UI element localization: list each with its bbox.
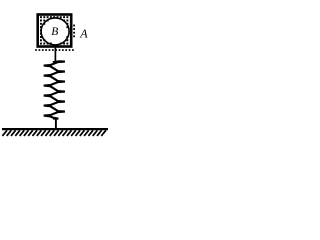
shadow dots right of block (73, 25, 75, 38)
spring top link wire (54, 48, 56, 62)
ground hatching (2, 130, 106, 136)
shadow dots below block (35, 49, 74, 51)
spring bottom link wire (53, 119, 59, 129)
background (0, 0, 111, 149)
svg-text:B: B (51, 26, 58, 38)
block A border (38, 15, 71, 47)
spring coils (44, 61, 65, 118)
stipple dots inside block A (40, 16, 68, 44)
svg-text:A: A (79, 27, 88, 41)
ground line (2, 128, 108, 130)
ball B circle (41, 18, 69, 45)
